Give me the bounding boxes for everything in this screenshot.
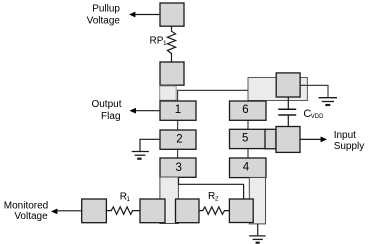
node: Pullup Voltage label <box>87 4 121 27</box>
svg-text:3: 3 <box>175 162 181 174</box>
wire: pin1-pin2 stub <box>177 120 179 130</box>
label R1 <box>120 192 131 204</box>
box: monitored voltage terminal <box>82 199 107 223</box>
wire: pin1 to VDD node <box>178 90 248 101</box>
box C: R2 ground node <box>229 199 253 223</box>
wire: pin2-pin3 stub <box>177 149 179 158</box>
svg-text:6: 6 <box>242 104 248 116</box>
svg-text:5: 5 <box>242 132 248 144</box>
label R2 <box>208 191 219 203</box>
light box: output stage channel <box>160 86 177 100</box>
box: internal regulator <box>276 73 300 97</box>
svg-text:2: 2 <box>215 195 219 202</box>
wire: regulator to ground <box>300 85 328 97</box>
pin 3 <box>160 158 196 177</box>
strip: pin3 sense channel <box>160 177 179 224</box>
svg-text:1: 1 <box>175 104 181 116</box>
svg-text:Pullup: Pullup <box>92 4 120 15</box>
wire: monitored voltage arrow <box>51 209 82 215</box>
svg-text:1: 1 <box>163 40 167 47</box>
label CVDD <box>303 108 324 120</box>
wire: pullup voltage arrow <box>129 12 160 18</box>
box B: divider node right <box>176 199 200 223</box>
ground (top right) <box>319 98 337 105</box>
pin 5 <box>230 129 267 148</box>
resistor RP1 <box>167 26 175 62</box>
resistor R2 <box>199 207 229 214</box>
svg-text:VDD: VDD <box>311 114 324 120</box>
svg-text:Voltage: Voltage <box>87 15 121 26</box>
svg-text:Output: Output <box>91 99 121 110</box>
wire: strip to bottom ground <box>257 224 259 236</box>
node: Input Supply label <box>334 130 365 152</box>
pin 4 <box>230 158 267 178</box>
svg-text:Voltage: Voltage <box>14 211 48 222</box>
pin 1 <box>160 101 196 120</box>
wire: pin5-pin4 stub <box>247 149 249 158</box>
node: Output Flag label <box>91 99 121 122</box>
small box: pin5 link <box>265 129 276 149</box>
ground (pin 2) <box>132 152 149 159</box>
svg-text:4: 4 <box>243 162 250 174</box>
svg-text:Input: Input <box>334 130 356 141</box>
svg-text:2: 2 <box>176 133 182 145</box>
svg-text:1: 1 <box>127 196 131 203</box>
svg-text:Flag: Flag <box>101 111 120 122</box>
box: below RP1 <box>160 62 184 85</box>
wire: pin6-pin5 stub <box>247 120 249 129</box>
wire: output flag arrow <box>130 108 161 114</box>
box: pullup voltage source <box>160 3 184 26</box>
light box: VDD internal node <box>248 78 307 101</box>
resistor R1 <box>106 207 140 214</box>
ground (bottom right) <box>249 236 265 243</box>
box A: divider node left <box>140 199 165 223</box>
label RP1 <box>150 36 168 48</box>
svg-text:Supply: Supply <box>334 141 365 152</box>
svg-text:RP: RP <box>150 36 164 47</box>
wire: pin3 channel to box C <box>179 178 244 200</box>
node: Monitored Voltage label <box>4 201 48 222</box>
pin 6 <box>230 101 267 120</box>
box: input supply <box>276 127 300 153</box>
pin 2 <box>160 130 196 149</box>
capacitor CVDD <box>278 97 296 127</box>
wire: input supply arrow <box>300 137 327 143</box>
strip: pin4 ground channel <box>249 178 265 224</box>
wire: pin2 to ground <box>140 139 160 151</box>
